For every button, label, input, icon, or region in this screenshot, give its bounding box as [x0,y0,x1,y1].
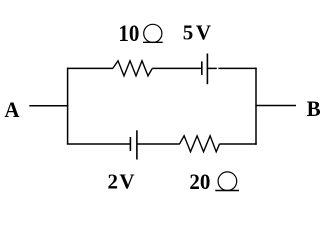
wire top right segment a [207,67,216,69]
svg-text:10: 10 [118,20,139,46]
battery 2 V short plate [129,137,131,151]
wire bottom middle segment [137,143,180,145]
svg-text:V: V [196,20,211,44]
svg-text:20: 20 [189,170,210,195]
wire top right segment b [218,67,256,69]
svg-text:5: 5 [183,20,194,44]
wire right vertical [255,68,257,145]
wire A lead [29,105,68,107]
label ohm symbol bottom underline [215,190,239,192]
svg-text:B: B [307,97,321,122]
svg-text:2: 2 [108,170,119,194]
resistor 10 ohm [113,61,153,76]
wire top left segment [67,67,113,69]
wire top middle segment [152,67,202,69]
label ohm symbol bottom circle [218,172,237,191]
wire B lead [255,105,296,107]
label ohm symbol top circle [144,24,162,42]
svg-text:V: V [119,170,134,194]
label ohm symbol top underline [143,41,163,43]
svg-text:A: A [4,97,20,122]
battery 5 V short plate [201,61,203,75]
resistor 20 ohm [180,136,220,152]
battery 5 V long plate [206,54,208,85]
battery 2 V long plate [136,130,138,159]
wire left vertical [67,68,69,145]
wire bottom right segment [220,143,257,145]
wire bottom left segment [67,143,130,145]
